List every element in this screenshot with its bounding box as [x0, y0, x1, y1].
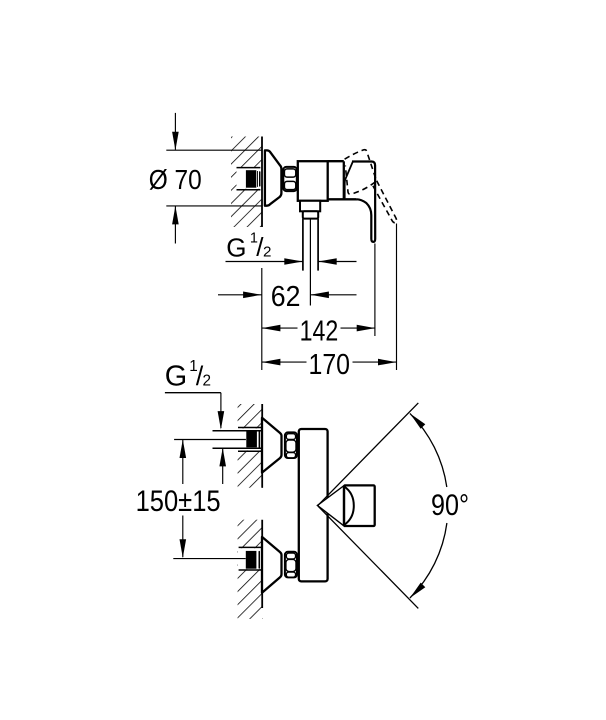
- arc arrowheads: [410, 413, 425, 428]
- pipe centerline: [309, 220, 311, 306]
- valve body (bottom figure): [299, 429, 328, 581]
- lever handle dashed (rotated position): [345, 150, 376, 194]
- dimension 150±15: [174, 439, 246, 441]
- lever handle (bottom figure): [317, 486, 344, 526]
- union nut bottom (bottom figure): [285, 552, 297, 578]
- cartridge section: [328, 160, 344, 162]
- supply pipe washer line: [257, 171, 259, 187]
- bottom connection supply (black): [246, 551, 257, 569]
- valve body (top figure): [298, 161, 328, 201]
- bottom connection pipe lines: [239, 546, 263, 548]
- shower pipe down: [302, 219, 304, 271]
- supply pipe washer bar: [259, 171, 261, 186]
- union nut (top figure): [283, 167, 297, 191]
- wall hatch patch 2: [238, 520, 263, 619]
- wall hatch patch 1: [238, 404, 263, 488]
- union nut top (bottom figure): [285, 432, 297, 458]
- svg-text:90°: 90°: [431, 489, 469, 522]
- svg-text:2: 2: [203, 372, 212, 389]
- wall extension line below (for 62/142/170 dims): [261, 268, 263, 370]
- svg-text:62: 62: [271, 281, 301, 313]
- svg-text:G: G: [165, 360, 187, 392]
- wall face line (top figure): [261, 137, 263, 228]
- 142 extension line (lever edge): [374, 244, 376, 337]
- svg-text:2: 2: [263, 244, 271, 261]
- body steps below: [300, 201, 320, 212]
- G1/2 leader (bottom figure): [165, 392, 221, 394]
- dimension Ø70: [174, 113, 176, 150]
- svg-text:142: 142: [300, 315, 339, 347]
- wall face line (bottom figure): [261, 404, 263, 488]
- 90 degree swing lines: [318, 403, 418, 506]
- top connection supply (black): [246, 432, 257, 448]
- escutcheon top (bottom figure): [262, 418, 282, 473]
- dimension 142: [262, 327, 298, 329]
- top connection pipe lines: [213, 430, 262, 432]
- supply pipe in wall (black): [246, 170, 256, 188]
- svg-text:170: 170: [309, 349, 351, 381]
- dimension 170: [262, 361, 307, 363]
- 170 extension line (dashed lever tip): [396, 224, 398, 371]
- wall hatch (top figure): [231, 137, 262, 228]
- lever handle solid (top figure): [352, 162, 375, 242]
- dimension 62: [218, 294, 262, 296]
- svg-text:150±15: 150±15: [136, 485, 221, 518]
- svg-text:G: G: [226, 233, 246, 263]
- 90 degree arc: [410, 413, 447, 487]
- dimension G1/2 line (top figure): [226, 261, 303, 263]
- wall hole edge lines (top figure): [237, 167, 261, 169]
- wall hole (top figure): [237, 168, 262, 189]
- escutcheon bottom (bottom figure): [262, 537, 282, 593]
- escutcheon (top figure): [265, 150, 282, 205]
- wall hole top connection: [213, 428, 263, 450]
- wall hole bottom connection: [238, 548, 262, 569]
- svg-text:Ø 70: Ø 70: [149, 164, 202, 195]
